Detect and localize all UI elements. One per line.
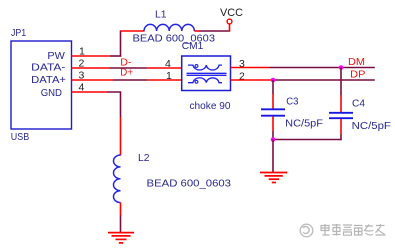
wire C3 top lead maroon bbox=[272, 80, 274, 94]
inductor L1 bbox=[144, 24, 194, 31]
svg-text:L1: L1 bbox=[155, 9, 167, 21]
choke CM1 bottom phase dot bbox=[195, 80, 198, 83]
svg-text:NC/5pF: NC/5pF bbox=[352, 120, 391, 132]
capacitor C4 bbox=[329, 113, 353, 118]
connector JP1 body bbox=[11, 41, 72, 129]
wire D- red to CM1.4 bbox=[147, 67, 182, 69]
svg-text:4: 4 bbox=[165, 58, 171, 70]
wire D+ maroon segment bbox=[113, 79, 147, 81]
junction dot DM/C4 bbox=[339, 65, 344, 70]
wire D- maroon segment bbox=[109, 67, 147, 69]
wire cap common bottom bbox=[273, 139, 341, 141]
svg-text:D+: D+ bbox=[120, 66, 133, 78]
wire C4 top lead red bbox=[340, 95, 342, 112]
wire L1 to VCC maroon bbox=[199, 30, 230, 32]
ground (below C3) bbox=[260, 173, 287, 183]
wire C3 bottom lead maroon bbox=[272, 131, 274, 140]
wire CM1.2 red stub bbox=[231, 79, 272, 81]
svg-text:L2: L2 bbox=[138, 152, 150, 164]
ground (below L2) bbox=[108, 233, 134, 243]
svg-text:1: 1 bbox=[166, 70, 172, 82]
svg-text:DP: DP bbox=[350, 69, 365, 81]
svg-text:CM1: CM1 bbox=[182, 40, 204, 52]
wire JP1.1 red stub bbox=[72, 55, 111, 57]
svg-text:JP1: JP1 bbox=[11, 27, 26, 39]
wire C4 bottom lead red bbox=[340, 119, 342, 134]
choke CM1 top phase dot bbox=[195, 65, 198, 68]
wire DM maroon run bbox=[269, 67, 375, 69]
choke CM1 core lines bbox=[187, 73, 227, 75]
wire C4 top lead maroon bbox=[340, 68, 342, 96]
svg-text:C4: C4 bbox=[352, 98, 365, 110]
wire C4 bottom lead maroon bbox=[340, 134, 342, 140]
watermark logo bbox=[300, 224, 313, 237]
wire C3 bottom lead red bbox=[272, 117, 274, 132]
svg-text:choke 90: choke 90 bbox=[190, 100, 231, 112]
svg-text:VCC: VCC bbox=[220, 7, 243, 19]
junction dot DP/C3 bbox=[271, 78, 276, 83]
wire JP1.2 red stub bbox=[72, 67, 110, 69]
wire to ground (C3) bbox=[272, 140, 274, 173]
choke CM1 bottom winding bbox=[188, 78, 222, 83]
svg-text:PW: PW bbox=[47, 51, 65, 62]
wire JP1.4 red stub bbox=[72, 91, 108, 93]
svg-text:GND: GND bbox=[41, 88, 62, 99]
wire JP1.3 red stub bbox=[72, 79, 114, 81]
wire L1 left red bbox=[121, 30, 145, 32]
wire JP1.1 maroon segment bbox=[110, 55, 121, 57]
wire riser to L1 bbox=[120, 30, 122, 56]
wire L2 maroon to ground bbox=[120, 216, 122, 233]
svg-text:USB: USB bbox=[11, 131, 29, 143]
wire L1 right red bbox=[194, 30, 199, 32]
wire JP1.4 maroon corner bbox=[107, 92, 121, 117]
svg-text:NC/5pF: NC/5pF bbox=[285, 118, 323, 130]
wire C3 top lead red bbox=[272, 94, 274, 109]
inductor L2 bbox=[114, 155, 121, 203]
svg-text:C3: C3 bbox=[286, 96, 298, 108]
wire D+ red to CM1.1 bbox=[147, 79, 182, 81]
junction dot bottom bbox=[271, 137, 276, 142]
svg-text:DM: DM bbox=[348, 56, 365, 68]
wire red down to L2 bbox=[120, 117, 122, 156]
svg-text:DATA-: DATA- bbox=[31, 63, 65, 74]
choke CM1 body bbox=[182, 56, 231, 91]
svg-text:BEAD 600_0603: BEAD 600_0603 bbox=[147, 178, 232, 190]
power VCC stub bbox=[229, 24, 231, 32]
wire L2 red to ground bbox=[120, 203, 122, 216]
wire CM1.3 red stub bbox=[231, 67, 270, 69]
choke CM1 top winding bbox=[188, 65, 222, 70]
power VCC circle bbox=[227, 19, 232, 24]
wire DP maroon run bbox=[271, 79, 375, 81]
capacitor C3 bbox=[261, 109, 285, 115]
svg-text:DATA+: DATA+ bbox=[31, 75, 66, 86]
watermark text bbox=[321, 224, 386, 236]
